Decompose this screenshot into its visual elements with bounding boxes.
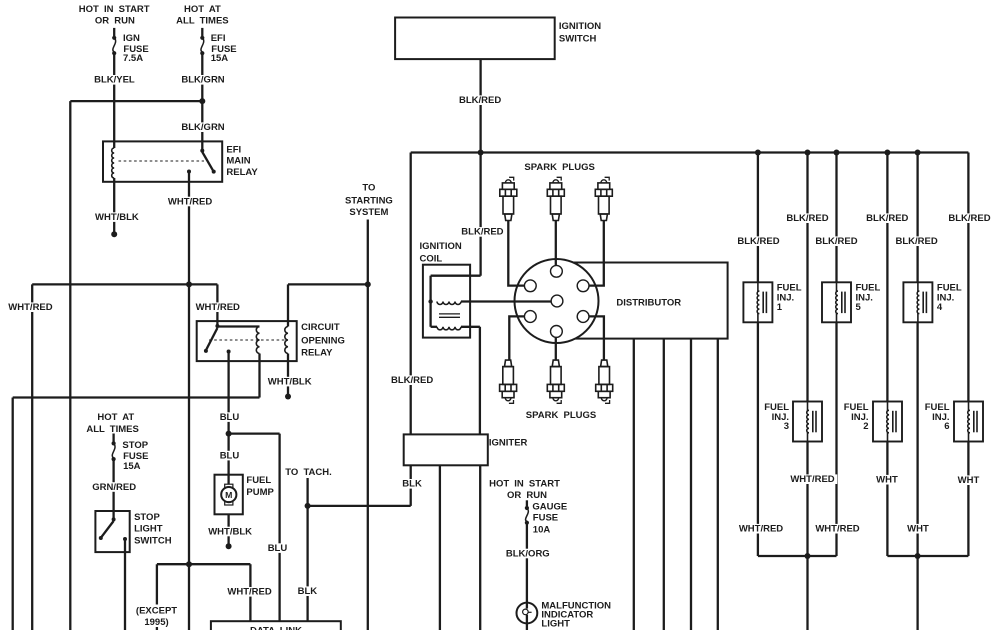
svg-text:BLK/RED: BLK/RED [391, 375, 433, 386]
svg-text:3: 3 [784, 421, 789, 432]
svg-text:STARTING: STARTING [345, 195, 393, 206]
svg-text:(EXCEPT: (EXCEPT [136, 606, 177, 617]
svg-text:BLK/RED: BLK/RED [948, 213, 990, 224]
svg-text:IGN: IGN [123, 33, 140, 44]
svg-text:1: 1 [777, 302, 783, 313]
svg-text:SPARK PLUGS: SPARK PLUGS [526, 410, 596, 421]
svg-text:7.5A: 7.5A [123, 53, 143, 64]
svg-text:LIGHT: LIGHT [134, 524, 163, 535]
svg-text:BLK/RED: BLK/RED [895, 236, 937, 247]
svg-text:WHT/RED: WHT/RED [739, 524, 783, 535]
svg-text:EFI: EFI [226, 145, 241, 156]
svg-text:IGNITER: IGNITER [489, 438, 528, 449]
svg-text:BLK/GRN: BLK/GRN [181, 75, 224, 86]
svg-text:6: 6 [944, 421, 949, 432]
svg-text:FUSE: FUSE [533, 513, 558, 524]
svg-text:WHT/BLK: WHT/BLK [208, 526, 252, 537]
svg-text:BLK/RED: BLK/RED [461, 227, 503, 238]
svg-text:BLK/RED: BLK/RED [815, 236, 857, 247]
svg-text:GRN/RED: GRN/RED [92, 482, 136, 493]
svg-text:TO: TO [362, 183, 375, 194]
svg-text:OR RUN: OR RUN [95, 15, 135, 26]
svg-text:CIRCUIT: CIRCUIT [301, 322, 340, 333]
svg-text:ALL TIMES: ALL TIMES [86, 424, 138, 435]
svg-text:WHT: WHT [958, 475, 980, 486]
svg-text:LIGHT: LIGHT [541, 618, 570, 629]
svg-text:BLK: BLK [298, 586, 318, 597]
svg-text:PUMP: PUMP [246, 487, 274, 498]
svg-text:15A: 15A [123, 461, 141, 472]
svg-text:M: M [225, 490, 232, 500]
svg-text:BLK/YEL: BLK/YEL [94, 75, 135, 86]
svg-text:4: 4 [937, 302, 943, 313]
svg-text:SYSTEM: SYSTEM [349, 207, 388, 218]
svg-text:BLK/ORG: BLK/ORG [506, 548, 550, 559]
svg-text:BLK/RED: BLK/RED [866, 213, 908, 224]
svg-text:ALL TIMES: ALL TIMES [176, 15, 228, 26]
svg-text:BLK/RED: BLK/RED [786, 213, 828, 224]
svg-text:TO TACH.: TO TACH. [285, 467, 331, 478]
svg-text:MAIN: MAIN [226, 155, 250, 166]
svg-text:STOP: STOP [134, 512, 160, 523]
svg-text:WHT/RED: WHT/RED [168, 196, 212, 207]
svg-text:EFI: EFI [211, 33, 226, 44]
svg-text:5: 5 [856, 302, 862, 313]
svg-text:COIL: COIL [420, 253, 443, 264]
svg-text:IGNITION: IGNITION [420, 241, 462, 252]
svg-text:SPARK PLUGS: SPARK PLUGS [524, 162, 594, 173]
svg-text:RELAY: RELAY [301, 348, 333, 359]
svg-text:WHT/RED: WHT/RED [227, 587, 271, 598]
svg-text:WHT: WHT [907, 524, 929, 535]
svg-text:BLK/GRN: BLK/GRN [181, 122, 224, 133]
svg-text:BLU: BLU [220, 450, 240, 461]
svg-text:IGNITION: IGNITION [559, 21, 601, 32]
svg-text:SWITCH: SWITCH [134, 535, 172, 546]
svg-text:BLK: BLK [402, 479, 422, 490]
svg-text:1995): 1995) [144, 617, 168, 628]
svg-text:BLU: BLU [220, 412, 240, 423]
svg-text:FUEL: FUEL [246, 475, 271, 486]
svg-text:SWITCH: SWITCH [559, 33, 597, 44]
svg-text:HOT AT: HOT AT [97, 412, 134, 423]
svg-text:OR RUN: OR RUN [507, 490, 547, 501]
svg-text:STOP: STOP [122, 440, 148, 451]
svg-text:WHT/RED: WHT/RED [196, 302, 240, 313]
svg-text:WHT/RED: WHT/RED [815, 524, 859, 535]
svg-text:BLU: BLU [268, 543, 288, 554]
svg-text:DISTRIBUTOR: DISTRIBUTOR [616, 297, 681, 308]
svg-text:2: 2 [863, 421, 868, 432]
svg-text:10A: 10A [533, 525, 551, 536]
svg-text:RELAY: RELAY [226, 167, 258, 178]
svg-text:WHT/RED: WHT/RED [8, 302, 52, 313]
svg-text:BLK/RED: BLK/RED [459, 95, 501, 106]
svg-text:OPENING: OPENING [301, 335, 345, 346]
svg-text:15A: 15A [211, 53, 229, 64]
svg-text:HOT IN START: HOT IN START [79, 4, 150, 15]
svg-text:GAUGE: GAUGE [532, 502, 567, 513]
svg-text:BLK/RED: BLK/RED [737, 236, 779, 247]
svg-text:WHT/RED: WHT/RED [790, 474, 834, 485]
svg-text:HOT IN START: HOT IN START [489, 479, 560, 490]
svg-text:WHT/BLK: WHT/BLK [268, 376, 312, 387]
svg-text:WHT: WHT [876, 475, 898, 486]
svg-text:DATA LINK: DATA LINK [250, 626, 302, 631]
svg-text:HOT AT: HOT AT [184, 4, 221, 15]
svg-text:WHT/BLK: WHT/BLK [95, 212, 139, 223]
